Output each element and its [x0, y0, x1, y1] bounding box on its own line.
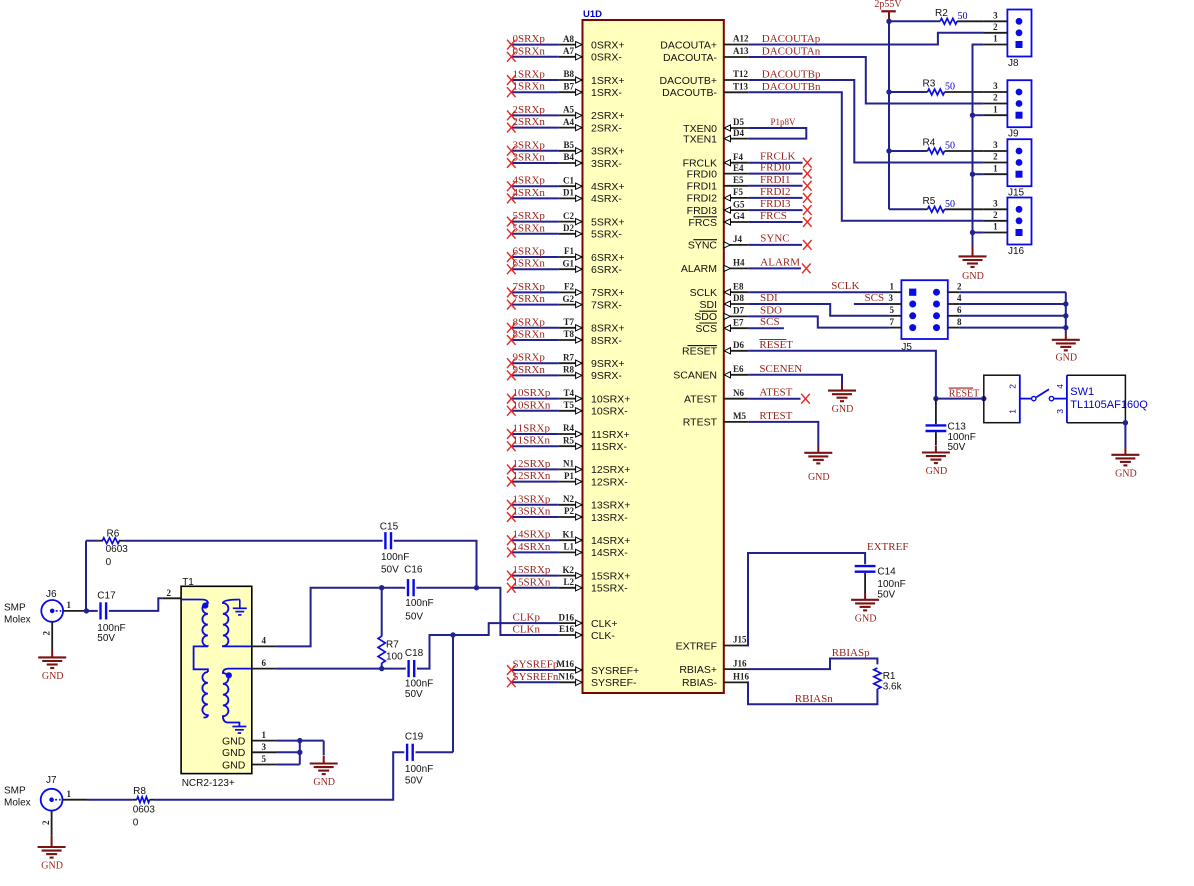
svg-text:3: 3 — [993, 199, 998, 209]
svg-text:4SRX-: 4SRX- — [591, 193, 622, 205]
svg-text:B4: B4 — [563, 152, 574, 162]
svg-text:100nF: 100nF — [405, 764, 433, 775]
svg-text:50V: 50V — [381, 565, 399, 576]
svg-text:GND: GND — [808, 472, 830, 483]
svg-text:6: 6 — [957, 305, 962, 315]
svg-text:D7: D7 — [733, 306, 744, 316]
svg-text:FRDI3: FRDI3 — [687, 205, 717, 217]
svg-text:J6: J6 — [46, 589, 57, 600]
svg-text:0SRXn: 0SRXn — [513, 45, 546, 57]
svg-text:ALARM: ALARM — [760, 256, 800, 268]
svg-text:0SRX+: 0SRX+ — [591, 39, 625, 51]
svg-text:1: 1 — [262, 730, 267, 740]
svg-text:H4: H4 — [733, 258, 745, 268]
svg-text:13SRXn: 13SRXn — [513, 506, 551, 518]
svg-text:A4: A4 — [563, 117, 574, 127]
svg-text:50V: 50V — [97, 633, 115, 644]
svg-text:CLKp: CLKp — [513, 612, 541, 624]
svg-text:15SRX+: 15SRX+ — [591, 570, 630, 582]
svg-text:C15: C15 — [380, 522, 399, 533]
svg-text:6: 6 — [262, 658, 267, 668]
svg-text:T8: T8 — [563, 329, 574, 339]
svg-text:C17: C17 — [97, 590, 116, 601]
svg-text:SDI: SDI — [699, 299, 717, 311]
svg-text:8SRX-: 8SRX- — [591, 335, 622, 347]
svg-text:U1D: U1D — [583, 9, 602, 20]
svg-text:B5: B5 — [563, 140, 574, 150]
svg-text:3SRX-: 3SRX- — [591, 158, 622, 170]
svg-text:8SRXp: 8SRXp — [513, 316, 546, 328]
svg-text:P1p8V: P1p8V — [771, 117, 797, 127]
svg-text:H16: H16 — [733, 672, 750, 682]
svg-text:1: 1 — [993, 163, 998, 173]
svg-text:C13: C13 — [948, 422, 967, 433]
svg-text:14SRXn: 14SRXn — [513, 541, 551, 553]
svg-text:J4: J4 — [733, 234, 743, 244]
svg-text:R3: R3 — [923, 79, 936, 90]
svg-text:15SRXp: 15SRXp — [513, 564, 551, 576]
svg-text:11SRX+: 11SRX+ — [591, 429, 630, 441]
svg-text:G4: G4 — [733, 211, 745, 221]
svg-text:3SRXn: 3SRXn — [513, 152, 546, 164]
svg-text:4: 4 — [262, 636, 267, 646]
svg-text:E7: E7 — [733, 317, 744, 327]
svg-text:12SRXp: 12SRXp — [513, 458, 551, 470]
svg-text:ATEST: ATEST — [684, 394, 718, 406]
svg-text:GND: GND — [222, 759, 246, 771]
svg-text:FRDI0: FRDI0 — [687, 168, 717, 180]
svg-text:RTEST: RTEST — [683, 417, 718, 429]
svg-text:R7: R7 — [563, 352, 574, 362]
svg-text:5: 5 — [262, 754, 267, 764]
svg-text:5SRXp: 5SRXp — [513, 210, 546, 222]
svg-text:3SRX+: 3SRX+ — [591, 146, 625, 158]
svg-text:12SRXn: 12SRXn — [513, 470, 551, 482]
svg-text:F2: F2 — [564, 282, 574, 292]
svg-text:SYNC: SYNC — [688, 240, 718, 252]
svg-text:15SRX-: 15SRX- — [591, 583, 628, 595]
svg-text:N2: N2 — [563, 494, 574, 504]
svg-text:RBIASp: RBIASp — [832, 647, 870, 659]
svg-text:A12: A12 — [733, 34, 749, 44]
svg-text:R6: R6 — [107, 529, 120, 540]
svg-text:G2: G2 — [562, 294, 574, 304]
svg-text:100nF: 100nF — [381, 552, 409, 563]
svg-text:D5: D5 — [733, 117, 744, 127]
svg-text:2SRXn: 2SRXn — [513, 116, 546, 128]
svg-text:11SRX-: 11SRX- — [591, 441, 627, 453]
svg-text:DACOUTB-: DACOUTB- — [662, 87, 717, 99]
svg-text:T4: T4 — [563, 388, 574, 398]
svg-text:C16: C16 — [404, 565, 423, 576]
svg-text:2p55V: 2p55V — [874, 0, 902, 10]
svg-text:SYNC: SYNC — [760, 232, 789, 244]
svg-text:E5: E5 — [733, 175, 744, 185]
svg-text:K2: K2 — [562, 565, 574, 575]
svg-text:1: 1 — [1007, 409, 1017, 414]
svg-text:3: 3 — [1055, 409, 1065, 414]
svg-text:R8: R8 — [563, 365, 574, 375]
svg-text:14SRX-: 14SRX- — [591, 547, 628, 559]
svg-text:CLKn: CLKn — [513, 624, 541, 636]
svg-text:9SRXn: 9SRXn — [513, 364, 546, 376]
svg-text:M16: M16 — [557, 659, 575, 669]
svg-text:J15: J15 — [733, 635, 747, 645]
svg-text:TL1105AF160Q: TL1105AF160Q — [1070, 399, 1148, 411]
svg-text:R1: R1 — [883, 671, 896, 682]
svg-text:50V: 50V — [405, 776, 423, 787]
svg-text:FRDI0: FRDI0 — [760, 162, 791, 174]
svg-text:10SRX+: 10SRX+ — [591, 393, 630, 405]
svg-text:Molex: Molex — [4, 798, 31, 809]
svg-text:1: 1 — [67, 789, 72, 799]
svg-text:FRDI1: FRDI1 — [687, 181, 717, 193]
svg-text:4: 4 — [1055, 384, 1065, 389]
svg-text:GND: GND — [42, 671, 64, 682]
svg-text:GND: GND — [1055, 353, 1077, 364]
svg-text:E6: E6 — [733, 364, 744, 374]
svg-text:DACOUTA+: DACOUTA+ — [660, 39, 717, 51]
svg-text:N6: N6 — [733, 388, 744, 398]
svg-text:J7: J7 — [46, 775, 57, 786]
svg-text:SCS: SCS — [695, 323, 717, 335]
svg-text:DACOUTA-: DACOUTA- — [663, 52, 718, 64]
svg-text:D6: D6 — [733, 340, 744, 350]
svg-text:3SRXp: 3SRXp — [513, 139, 546, 151]
svg-text:0: 0 — [133, 818, 139, 829]
svg-text:7SRX-: 7SRX- — [591, 299, 622, 311]
svg-text:SMP: SMP — [4, 603, 26, 614]
svg-text:GND: GND — [926, 466, 948, 477]
svg-text:SCS: SCS — [865, 292, 885, 304]
svg-text:9SRXp: 9SRXp — [513, 352, 546, 364]
svg-text:SYSREF+: SYSREF+ — [591, 665, 639, 677]
svg-text:3: 3 — [993, 140, 998, 150]
svg-text:13SRX-: 13SRX- — [591, 512, 628, 524]
svg-text:3: 3 — [262, 742, 267, 752]
svg-text:5SRXn: 5SRXn — [513, 222, 546, 234]
svg-text:13SRX+: 13SRX+ — [591, 500, 630, 512]
svg-text:C2: C2 — [563, 211, 574, 221]
svg-text:100nF: 100nF — [877, 579, 905, 590]
svg-text:SDO: SDO — [760, 304, 782, 316]
svg-text:3: 3 — [993, 81, 998, 91]
svg-text:R4: R4 — [923, 138, 936, 149]
svg-text:8: 8 — [957, 317, 962, 327]
svg-text:14SRX+: 14SRX+ — [591, 535, 630, 547]
svg-text:R5: R5 — [923, 196, 936, 207]
svg-text:D1: D1 — [563, 188, 574, 198]
svg-text:2: 2 — [957, 281, 962, 291]
svg-text:2SRX-: 2SRX- — [591, 122, 622, 134]
svg-text:EXTREF: EXTREF — [867, 541, 909, 553]
svg-text:2SRX+: 2SRX+ — [591, 110, 625, 122]
svg-text:J16: J16 — [1008, 246, 1025, 257]
svg-text:RBIAS-: RBIAS- — [682, 677, 718, 689]
svg-text:7: 7 — [890, 317, 895, 327]
svg-text:C14: C14 — [877, 567, 896, 578]
svg-text:EXTREF: EXTREF — [676, 640, 717, 652]
svg-text:DACOUTB+: DACOUTB+ — [660, 75, 717, 87]
svg-text:4: 4 — [957, 293, 962, 303]
svg-text:3: 3 — [993, 11, 998, 21]
svg-text:6SRX+: 6SRX+ — [591, 252, 625, 264]
svg-text:2: 2 — [993, 210, 998, 220]
svg-text:1SRXp: 1SRXp — [513, 69, 546, 81]
svg-text:7SRX+: 7SRX+ — [591, 287, 625, 299]
svg-text:A7: A7 — [563, 46, 574, 56]
svg-text:GND: GND — [222, 735, 246, 747]
svg-text:N16: N16 — [559, 672, 575, 682]
svg-text:DACOUTAn: DACOUTAn — [762, 46, 821, 58]
svg-text:2SRXp: 2SRXp — [513, 104, 546, 116]
svg-text:1SRX-: 1SRX- — [591, 87, 622, 99]
svg-text:A13: A13 — [733, 46, 749, 56]
svg-text:2: 2 — [993, 93, 998, 103]
svg-text:9SRX+: 9SRX+ — [591, 358, 625, 370]
svg-text:J8: J8 — [1008, 58, 1019, 69]
svg-text:GND: GND — [962, 271, 984, 282]
svg-text:12SRX-: 12SRX- — [591, 476, 628, 488]
svg-text:R8: R8 — [133, 786, 146, 797]
svg-text:FRDI2: FRDI2 — [760, 186, 791, 198]
svg-text:DACOUTBp: DACOUTBp — [762, 69, 821, 81]
svg-text:2: 2 — [993, 22, 998, 32]
svg-text:6SRXp: 6SRXp — [513, 246, 546, 258]
svg-text:1: 1 — [890, 281, 895, 291]
svg-text:D8: D8 — [733, 293, 744, 303]
svg-text:3.6k: 3.6k — [883, 682, 903, 693]
svg-text:C18: C18 — [405, 648, 424, 659]
svg-text:0SRX-: 0SRX- — [591, 52, 622, 64]
svg-text:6SRXn: 6SRXn — [513, 258, 546, 270]
svg-text:100nF: 100nF — [405, 679, 433, 690]
svg-text:D2: D2 — [563, 223, 574, 233]
svg-text:7SRXn: 7SRXn — [513, 293, 546, 305]
svg-text:3: 3 — [889, 293, 894, 303]
svg-text:GND: GND — [222, 747, 246, 759]
svg-text:SYSREF-: SYSREF- — [591, 677, 637, 689]
svg-text:SW1: SW1 — [1070, 386, 1094, 398]
svg-text:RESET: RESET — [682, 346, 718, 358]
svg-text:R2: R2 — [935, 8, 948, 19]
svg-text:B8: B8 — [563, 69, 574, 79]
svg-text:100: 100 — [386, 652, 403, 663]
svg-text:RESET: RESET — [759, 339, 793, 351]
svg-text:2: 2 — [993, 152, 998, 162]
svg-text:GND: GND — [832, 404, 854, 415]
svg-text:GND: GND — [41, 861, 63, 872]
svg-text:5: 5 — [890, 305, 895, 315]
svg-text:CLK-: CLK- — [591, 630, 615, 642]
svg-text:T13: T13 — [733, 82, 749, 92]
svg-text:7SRXp: 7SRXp — [513, 281, 546, 293]
svg-text:50: 50 — [945, 82, 955, 93]
svg-text:D4: D4 — [733, 128, 744, 138]
svg-text:M5: M5 — [733, 411, 746, 421]
svg-text:GND: GND — [1115, 468, 1137, 479]
svg-text:E4: E4 — [733, 163, 744, 173]
svg-text:F4: F4 — [733, 152, 743, 162]
svg-text:T5: T5 — [563, 400, 574, 410]
svg-text:4SRXp: 4SRXp — [513, 175, 546, 187]
svg-text:F5: F5 — [733, 187, 743, 197]
svg-text:SYSREFp: SYSREFp — [513, 659, 559, 671]
svg-text:FRDI1: FRDI1 — [760, 174, 791, 186]
svg-text:50V: 50V — [405, 689, 423, 700]
svg-text:R4: R4 — [563, 423, 574, 433]
svg-text:0603: 0603 — [133, 805, 156, 816]
svg-text:4SRXn: 4SRXn — [513, 187, 546, 199]
svg-text:D16: D16 — [559, 612, 575, 622]
svg-text:DACOUTAp: DACOUTAp — [762, 33, 821, 45]
svg-text:2: 2 — [1007, 384, 1017, 389]
svg-text:10SRX-: 10SRX- — [591, 406, 628, 418]
svg-text:4SRX+: 4SRX+ — [591, 181, 625, 193]
svg-text:50V: 50V — [948, 442, 966, 453]
svg-text:14SRXp: 14SRXp — [513, 529, 551, 541]
svg-text:T7: T7 — [563, 317, 574, 327]
svg-text:C1: C1 — [563, 175, 574, 185]
svg-text:SCS: SCS — [760, 316, 780, 328]
svg-text:G1: G1 — [562, 258, 574, 268]
svg-text:8SRX+: 8SRX+ — [591, 323, 625, 335]
svg-text:G5: G5 — [733, 199, 745, 209]
svg-text:Molex: Molex — [4, 615, 31, 626]
svg-text:SCANEN: SCANEN — [673, 370, 717, 382]
svg-text:RESET: RESET — [949, 388, 980, 399]
svg-text:0SRXp: 0SRXp — [513, 33, 546, 45]
svg-text:50: 50 — [945, 199, 955, 210]
svg-text:T1: T1 — [182, 577, 194, 588]
svg-text:GND: GND — [313, 777, 335, 788]
svg-text:0603: 0603 — [106, 544, 129, 555]
svg-text:100nF: 100nF — [405, 598, 433, 609]
svg-text:12SRX+: 12SRX+ — [591, 464, 630, 476]
svg-text:A8: A8 — [563, 34, 574, 44]
svg-text:50V: 50V — [405, 611, 423, 622]
svg-text:9SRX-: 9SRX- — [591, 370, 622, 382]
svg-text:NCR2-123+: NCR2-123+ — [182, 778, 235, 789]
svg-text:1SRXn: 1SRXn — [513, 81, 546, 93]
svg-text:11SRXn: 11SRXn — [513, 435, 551, 447]
svg-text:RBIAS+: RBIAS+ — [679, 664, 717, 676]
svg-text:F1: F1 — [564, 246, 574, 256]
svg-text:CLK+: CLK+ — [591, 618, 618, 630]
svg-text:J16: J16 — [733, 658, 747, 668]
svg-text:2: 2 — [167, 588, 172, 598]
svg-text:SCLK: SCLK — [690, 287, 717, 299]
svg-text:E16: E16 — [559, 624, 575, 634]
svg-text:1: 1 — [67, 600, 72, 610]
svg-text:GND: GND — [855, 613, 877, 624]
svg-text:DACOUTBn: DACOUTBn — [762, 81, 821, 93]
svg-text:R7: R7 — [386, 640, 399, 651]
svg-text:SMP: SMP — [4, 786, 26, 797]
svg-text:5SRX+: 5SRX+ — [591, 216, 625, 228]
svg-text:L2: L2 — [563, 577, 574, 587]
svg-text:SCENEN: SCENEN — [759, 363, 802, 375]
svg-text:RTEST: RTEST — [759, 410, 792, 422]
svg-text:1: 1 — [993, 222, 998, 232]
svg-text:A5: A5 — [563, 105, 574, 115]
svg-text:2: 2 — [41, 820, 51, 825]
svg-text:50V: 50V — [877, 589, 895, 600]
svg-text:FRCS: FRCS — [688, 217, 717, 229]
svg-text:SDO: SDO — [694, 311, 717, 323]
svg-text:11SRXp: 11SRXp — [513, 423, 551, 435]
svg-text:0: 0 — [106, 557, 112, 568]
svg-text:P1: P1 — [564, 471, 574, 481]
svg-text:C19: C19 — [405, 731, 424, 742]
svg-text:8SRXn: 8SRXn — [513, 329, 546, 341]
svg-text:15SRXn: 15SRXn — [513, 576, 551, 588]
svg-text:TXEN1: TXEN1 — [683, 133, 717, 145]
svg-text:P2: P2 — [564, 506, 574, 516]
svg-text:2: 2 — [42, 631, 52, 636]
svg-text:FRDI3: FRDI3 — [760, 198, 791, 210]
svg-text:SYSREFn: SYSREFn — [513, 671, 559, 683]
svg-text:10SRXp: 10SRXp — [513, 387, 551, 399]
svg-text:T12: T12 — [733, 69, 749, 79]
svg-text:ATEST: ATEST — [759, 387, 792, 399]
svg-text:1SRX+: 1SRX+ — [591, 75, 625, 87]
svg-text:RBIASn: RBIASn — [795, 693, 833, 705]
svg-text:13SRXp: 13SRXp — [513, 493, 551, 505]
svg-text:5SRX-: 5SRX- — [591, 229, 622, 241]
svg-text:J9: J9 — [1008, 129, 1019, 140]
svg-text:SDI: SDI — [760, 292, 778, 304]
svg-text:E8: E8 — [733, 281, 744, 291]
svg-text:R5: R5 — [563, 435, 574, 445]
svg-text:B7: B7 — [563, 81, 574, 91]
svg-text:K1: K1 — [562, 529, 574, 539]
svg-text:SCLK: SCLK — [831, 280, 859, 292]
svg-text:50: 50 — [958, 11, 968, 22]
svg-text:FRDI2: FRDI2 — [687, 193, 717, 205]
svg-text:L1: L1 — [563, 542, 574, 552]
svg-text:N1: N1 — [563, 459, 574, 469]
svg-text:FRCS: FRCS — [760, 210, 787, 222]
svg-text:1: 1 — [993, 34, 998, 44]
svg-text:ALARM: ALARM — [681, 263, 717, 275]
svg-text:1: 1 — [993, 104, 998, 114]
svg-text:10SRXn: 10SRXn — [513, 399, 551, 411]
svg-text:50: 50 — [945, 141, 955, 152]
svg-text:6SRX-: 6SRX- — [591, 264, 622, 276]
